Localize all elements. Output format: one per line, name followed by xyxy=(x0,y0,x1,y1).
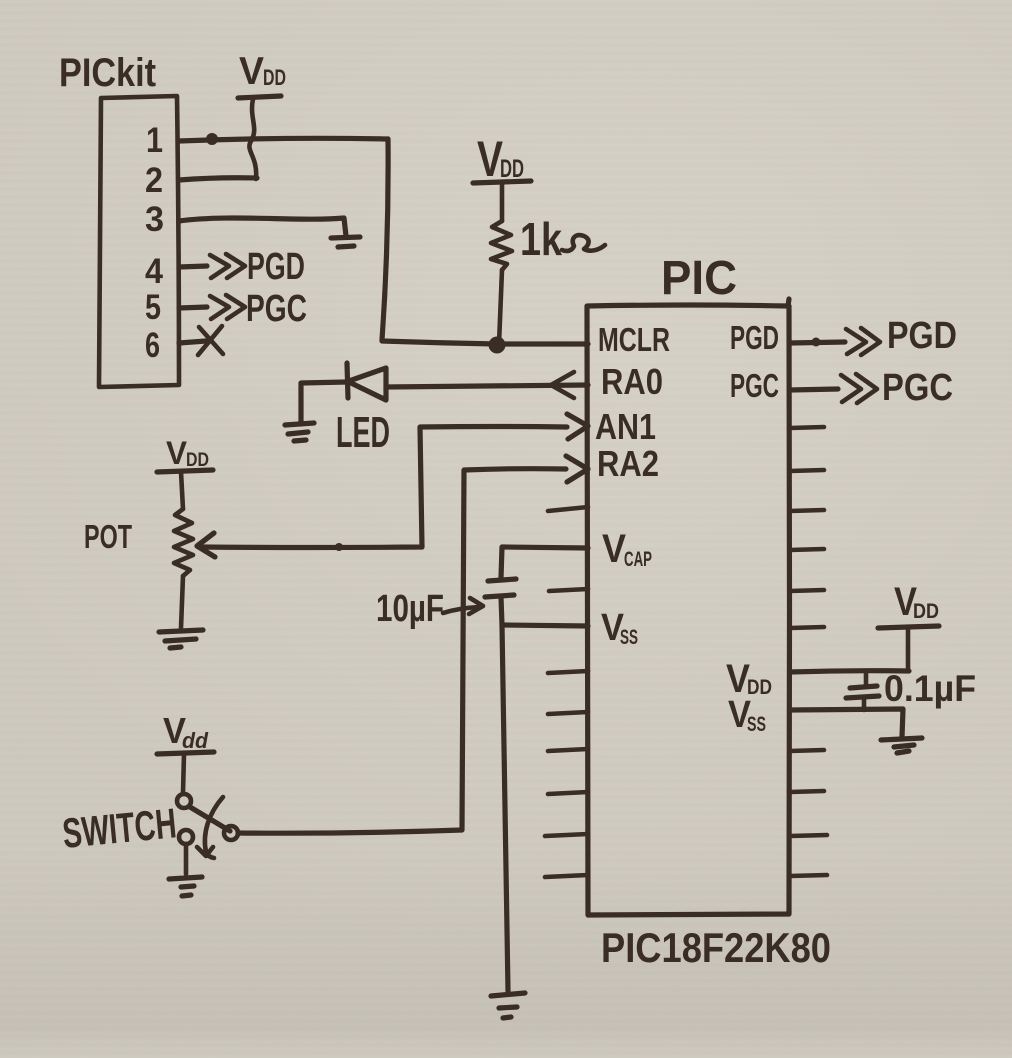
svg-text:V: V xyxy=(239,50,264,93)
junction wiper wire xyxy=(335,543,343,551)
power symbol VDD (1k pull-up) xyxy=(473,131,531,187)
wire VDD to switch xyxy=(183,754,184,793)
pin stub left 10 xyxy=(548,712,588,714)
pin stub right 12 xyxy=(790,791,824,792)
svg-text:RA2: RA2 xyxy=(597,443,659,484)
svg-text:DD: DD xyxy=(263,65,286,90)
ground (bypass cap) xyxy=(881,738,922,753)
IC U1 body PIC18F22K80 xyxy=(587,299,790,915)
wire VSS pin to C1 xyxy=(502,625,588,626)
junction PGD out xyxy=(812,338,821,347)
capacitor C1 10uF top plate xyxy=(488,579,516,581)
wire C1 down to ground run xyxy=(501,597,508,991)
wire VDD to POT xyxy=(181,472,183,509)
power symbol VDD (PICkit) xyxy=(238,50,286,98)
wire switch lower contact to ground xyxy=(184,844,189,874)
wire pin 3 to ground xyxy=(179,218,346,236)
ground (switch) xyxy=(169,877,202,896)
wire LED cathode to ground xyxy=(301,382,347,424)
arrow PGC out xyxy=(841,374,877,403)
ground (bottom VSS) xyxy=(491,993,525,1018)
pin stub right 3 xyxy=(790,427,824,428)
svg-text:1: 1 xyxy=(146,121,163,160)
wire pin 4 stub xyxy=(179,266,207,267)
svg-text:PGC: PGC xyxy=(730,367,779,404)
svg-text:AN1: AN1 xyxy=(595,406,656,447)
resistor R1 1k xyxy=(491,221,512,270)
pin stub right 6 xyxy=(790,549,824,550)
arrow POT wiper xyxy=(197,533,215,557)
junction MCLR node xyxy=(489,337,506,354)
svg-text:1k: 1k xyxy=(520,213,562,265)
pin stub left 7 xyxy=(549,589,588,591)
svg-text:POT: POT xyxy=(84,518,132,555)
svg-text:V: V xyxy=(166,435,188,471)
pin stub left 12 xyxy=(548,792,588,794)
svg-text:DD: DD xyxy=(913,600,939,623)
pin stub left 5 xyxy=(548,507,588,511)
svg-text:PICkit: PICkit xyxy=(59,51,156,95)
pin stub right 11 xyxy=(790,750,824,751)
wire LED anode to RA0 xyxy=(386,385,588,387)
arrow into RA2 xyxy=(566,456,588,482)
wire MCLR horizontal xyxy=(382,341,588,344)
svg-text:PGC: PGC xyxy=(882,367,953,409)
switch SW1 lower contact xyxy=(179,830,193,844)
wire VDD drop to pins 1-2 xyxy=(249,99,256,179)
svg-text:PGD: PGD xyxy=(730,319,779,356)
power symbol VDD (POT) xyxy=(157,435,213,472)
svg-text:10µF: 10µF xyxy=(376,588,444,630)
switch SW1 output contact xyxy=(224,826,238,840)
wire pin 2 xyxy=(179,178,257,180)
pin stub left 9 xyxy=(548,671,588,673)
svg-text:0.1µF: 0.1µF xyxy=(884,668,976,709)
svg-text:LED: LED xyxy=(336,408,390,457)
arrow pin 4 PGD xyxy=(210,254,245,278)
pin label VSS (left) xyxy=(601,607,638,649)
pin label VSS (right col) xyxy=(728,694,766,736)
svg-text:5: 5 xyxy=(145,288,161,327)
pin stub right 8 xyxy=(790,627,824,628)
capacitor C2 0.1uF top plate xyxy=(850,686,877,688)
pin stub right 14 xyxy=(790,875,827,876)
svg-text:6: 6 xyxy=(145,326,160,365)
pin stub right 5 xyxy=(790,510,824,511)
wire VSS pin (right) xyxy=(790,709,903,737)
svg-text:2: 2 xyxy=(145,161,163,200)
wire pin 5 stub xyxy=(179,307,207,308)
pin stub left 13 xyxy=(545,834,588,836)
pin stub left 14 xyxy=(545,875,588,877)
pin label VDD (right col) xyxy=(726,657,772,701)
arrow 10uF pointer xyxy=(443,598,483,614)
wire VCAP pin xyxy=(501,547,588,578)
arrow RA0 (points left) xyxy=(551,372,574,398)
svg-text:PIC: PIC xyxy=(661,252,737,305)
switch SW1 lever xyxy=(190,807,230,831)
power symbol VDD (bypass cap) xyxy=(878,580,939,628)
svg-text:PGC: PGC xyxy=(246,288,307,330)
potentiometer R2 POT xyxy=(174,509,193,576)
wire pin 1 to node xyxy=(179,138,388,141)
pin label VCAP xyxy=(602,527,652,571)
ground (pin 3) xyxy=(331,237,360,247)
svg-text:dd: dd xyxy=(182,728,209,753)
pin stub right 13 xyxy=(790,835,827,836)
diode LED ground xyxy=(285,423,314,441)
capacitor C2 0.1uF top lead xyxy=(864,671,869,684)
wire PGD out xyxy=(790,342,845,343)
svg-text:MCLR: MCLR xyxy=(598,321,670,358)
diode LED (D1) xyxy=(347,363,386,400)
wire VDD down to VDD pin xyxy=(906,628,911,670)
junction pin 1 xyxy=(206,133,218,145)
switch SW1 common contact xyxy=(177,794,191,808)
wire node to MCLR (vertical run) xyxy=(382,139,388,340)
svg-text:PGD: PGD xyxy=(887,315,957,357)
wire PGC out xyxy=(790,389,838,390)
label ohm glyph xyxy=(562,235,605,251)
wire wiper to AN1 xyxy=(200,427,567,548)
wire POT to ground xyxy=(181,576,183,628)
capacitor C2 0.1uF bottom plate xyxy=(846,696,879,698)
wire resistor R1 to MCLR junction xyxy=(499,270,502,344)
no-connect X (pin 6) xyxy=(198,326,223,355)
svg-text:CAP: CAP xyxy=(624,548,652,571)
svg-text:RA0: RA0 xyxy=(601,361,663,402)
svg-text:3: 3 xyxy=(145,200,164,239)
wire VDD to resistor R1 xyxy=(500,183,505,221)
arrow into AN1 xyxy=(567,414,588,439)
svg-text:4: 4 xyxy=(145,252,163,291)
svg-text:SS: SS xyxy=(620,626,638,649)
connector J1 PICkit body xyxy=(99,96,179,387)
svg-text:V: V xyxy=(602,527,626,571)
arrow pin 5 PGC xyxy=(210,295,245,319)
pin stub right 4 xyxy=(790,470,824,471)
pin stub right 7 xyxy=(790,590,824,591)
svg-text:PGD: PGD xyxy=(247,246,305,288)
wire VDD pin (right) xyxy=(790,671,909,672)
svg-text:PIC18F22K80: PIC18F22K80 xyxy=(601,924,831,971)
power symbol VDD (switch) xyxy=(157,710,214,754)
wire pin 6 stub xyxy=(179,341,206,343)
capacitor C2 0.1uF bottom lead xyxy=(862,698,867,710)
switch SW1 throw arc arrow xyxy=(197,797,223,858)
arrow PGD out xyxy=(846,328,880,355)
svg-text:SS: SS xyxy=(747,713,766,736)
pin stub left 11 xyxy=(548,749,588,751)
ground (POT) xyxy=(159,630,203,648)
capacitor C1 10uF bottom plate xyxy=(485,595,514,597)
wire switch to RA2 xyxy=(238,469,566,834)
